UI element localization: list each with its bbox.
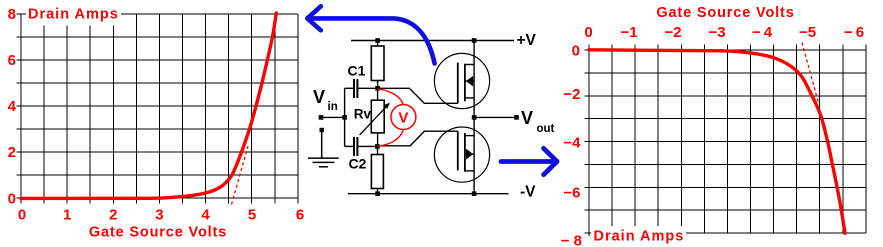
left chart y-axis ticks bbox=[17, 14, 22, 198]
blue arrow to right chart bbox=[501, 148, 557, 174]
svg-text:4: 4 bbox=[201, 207, 210, 224]
right chart top ticks bbox=[589, 45, 866, 51]
Vout node dot bbox=[472, 115, 477, 120]
right chart red transfer curve bbox=[589, 50, 845, 233]
left chart x labels bbox=[18, 207, 304, 224]
svg-text:5: 5 bbox=[248, 207, 256, 224]
svg-text:C2: C2 bbox=[349, 156, 367, 172]
voltmeter red wire (top) bbox=[378, 89, 403, 105]
Vout wire bbox=[474, 116, 516, 118]
svg-text:−4: −4 bbox=[563, 134, 581, 151]
node B (lower gate node) bbox=[375, 144, 380, 149]
svg-text:Gate Source Volts: Gate Source Volts bbox=[656, 5, 794, 21]
svg-text:4: 4 bbox=[8, 98, 17, 115]
right chart y labels bbox=[561, 43, 582, 247]
svg-text:-V: -V bbox=[520, 184, 536, 201]
-V rail bbox=[348, 193, 509, 195]
svg-text:V: V bbox=[521, 108, 533, 128]
left chart grid bbox=[21, 14, 298, 198]
left chart title bg bbox=[26, 5, 121, 26]
Vin wire bbox=[321, 116, 345, 118]
MOSFET Q2 (lower, P-channel) bbox=[434, 127, 489, 182]
svg-text:0: 0 bbox=[18, 207, 26, 224]
resistor R1 (upper bias) bbox=[371, 41, 384, 89]
svg-text:Drain Amps: Drain Amps bbox=[28, 7, 119, 23]
svg-text:in: in bbox=[328, 101, 338, 113]
right chart dashed tangent line bbox=[802, 43, 819, 104]
+V rail bbox=[351, 40, 514, 42]
left chart red transfer curve bbox=[21, 13, 276, 198]
svg-text:−1: −1 bbox=[620, 24, 637, 41]
left chart y labels bbox=[8, 6, 17, 208]
junction dot -V/drain line bbox=[472, 191, 477, 196]
blue arrow to left chart bbox=[307, 6, 434, 63]
junction dot Vin/bus bbox=[342, 115, 347, 120]
drain-source vertical line bbox=[473, 41, 475, 194]
wire node B to lower gate bbox=[377, 131, 457, 146]
svg-text:−6: −6 bbox=[563, 185, 580, 202]
svg-text:+V: +V bbox=[517, 32, 537, 49]
right chart grid bbox=[589, 50, 866, 233]
svg-text:0: 0 bbox=[572, 43, 580, 60]
svg-text:Rv: Rv bbox=[354, 106, 372, 121]
svg-text:−5: −5 bbox=[799, 24, 816, 41]
svg-text:2: 2 bbox=[109, 207, 117, 224]
MOSFET Q1 (upper, N-channel) bbox=[434, 53, 489, 108]
svg-text:V: V bbox=[313, 87, 325, 107]
svg-text:C1: C1 bbox=[348, 62, 366, 78]
ground bbox=[308, 130, 339, 167]
junction dot +V/R1 bbox=[375, 38, 380, 43]
right chart bottom label bg bbox=[591, 226, 686, 245]
junction dot +V/drain line bbox=[472, 38, 477, 43]
svg-text:0: 0 bbox=[584, 24, 592, 41]
svg-text:V: V bbox=[398, 110, 408, 127]
voltmeter V1 bbox=[391, 105, 416, 130]
svg-text:0: 0 bbox=[8, 191, 16, 208]
ground stub dot bbox=[320, 128, 324, 132]
svg-text:2: 2 bbox=[8, 144, 16, 161]
left coupling bus (C1-C2 vertical) bbox=[344, 88, 346, 146]
resistor R2 (lower bias) bbox=[371, 146, 383, 193]
node A (upper gate node) bbox=[375, 86, 380, 91]
svg-text:6: 6 bbox=[296, 207, 304, 224]
svg-text:− 4: − 4 bbox=[752, 24, 773, 41]
junction dot -V/R2 bbox=[375, 191, 380, 196]
svg-text:3: 3 bbox=[155, 207, 163, 224]
svg-text:− 6: − 6 bbox=[844, 24, 864, 41]
voltmeter red wire (bottom) bbox=[378, 130, 404, 146]
svg-text:Drain Amps: Drain Amps bbox=[594, 229, 685, 245]
right chart x labels (top) bbox=[584, 24, 864, 41]
svg-text:6: 6 bbox=[8, 52, 16, 69]
Vout terminal dot bbox=[514, 115, 519, 120]
left chart dashed tangent line bbox=[232, 146, 249, 205]
Vin terminal dot bbox=[319, 115, 324, 120]
wire node A to upper gate bbox=[378, 88, 458, 103]
svg-text:Gate Source Volts: Gate Source Volts bbox=[89, 225, 227, 241]
svg-text:1: 1 bbox=[63, 207, 71, 224]
capacitor C1 bbox=[345, 79, 378, 98]
svg-text:− 8: − 8 bbox=[561, 232, 582, 247]
svg-text:out: out bbox=[537, 123, 555, 135]
capacitor C2 bbox=[345, 137, 378, 156]
variable resistor Rv bbox=[360, 88, 390, 146]
right chart left ticks bbox=[585, 50, 590, 236]
svg-text:−3: −3 bbox=[708, 24, 725, 41]
svg-text:−2: −2 bbox=[664, 24, 681, 41]
left chart x-axis ticks bbox=[21, 198, 298, 204]
svg-text:−2: −2 bbox=[563, 86, 580, 103]
svg-text:8: 8 bbox=[8, 6, 16, 23]
